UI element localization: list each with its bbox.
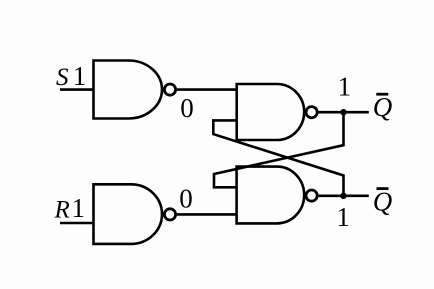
- svg-text:1: 1: [336, 202, 350, 232]
- wire feedback A: G3 output down-cross to G4 upper input: [214, 112, 344, 187]
- svg-text:0: 0: [180, 93, 194, 123]
- wire G2 output to G4 bottom input: [177, 213, 237, 216]
- svg-text:Q: Q: [373, 92, 393, 122]
- nand gate G2 (R input gate): [94, 184, 163, 244]
- wire S input: [60, 88, 94, 91]
- svg-text:1: 1: [73, 61, 87, 91]
- nand gate G3 (top latch gate): [237, 84, 304, 140]
- wire G4 output (Qbar bottom): [319, 195, 369, 198]
- wire G3 output (Qbar top): [319, 111, 369, 114]
- inverter bubble G3: [306, 107, 317, 118]
- svg-text:S: S: [56, 64, 69, 91]
- inverter bubble G2: [164, 209, 175, 220]
- svg-text:Q: Q: [373, 187, 393, 217]
- overline Qbar bottom: [377, 187, 389, 190]
- nand gate G4 (bottom latch gate): [237, 167, 305, 224]
- junction node top: [340, 109, 346, 115]
- nand gate G1 (S input gate): [94, 61, 163, 119]
- wire feedback B: G4 output up-cross to G3 lower input: [213, 120, 343, 195]
- wire G1 output to G3 top input: [177, 88, 237, 91]
- svg-text:R: R: [54, 197, 70, 224]
- overline Qbar top: [376, 93, 388, 96]
- svg-text:1: 1: [72, 193, 86, 223]
- svg-text:0: 0: [179, 183, 193, 213]
- wire R input: [60, 222, 94, 225]
- inverter bubble G4: [306, 190, 317, 201]
- inverter bubble G1: [164, 84, 175, 95]
- svg-text:1: 1: [338, 72, 352, 102]
- junction node bottom: [340, 193, 346, 199]
